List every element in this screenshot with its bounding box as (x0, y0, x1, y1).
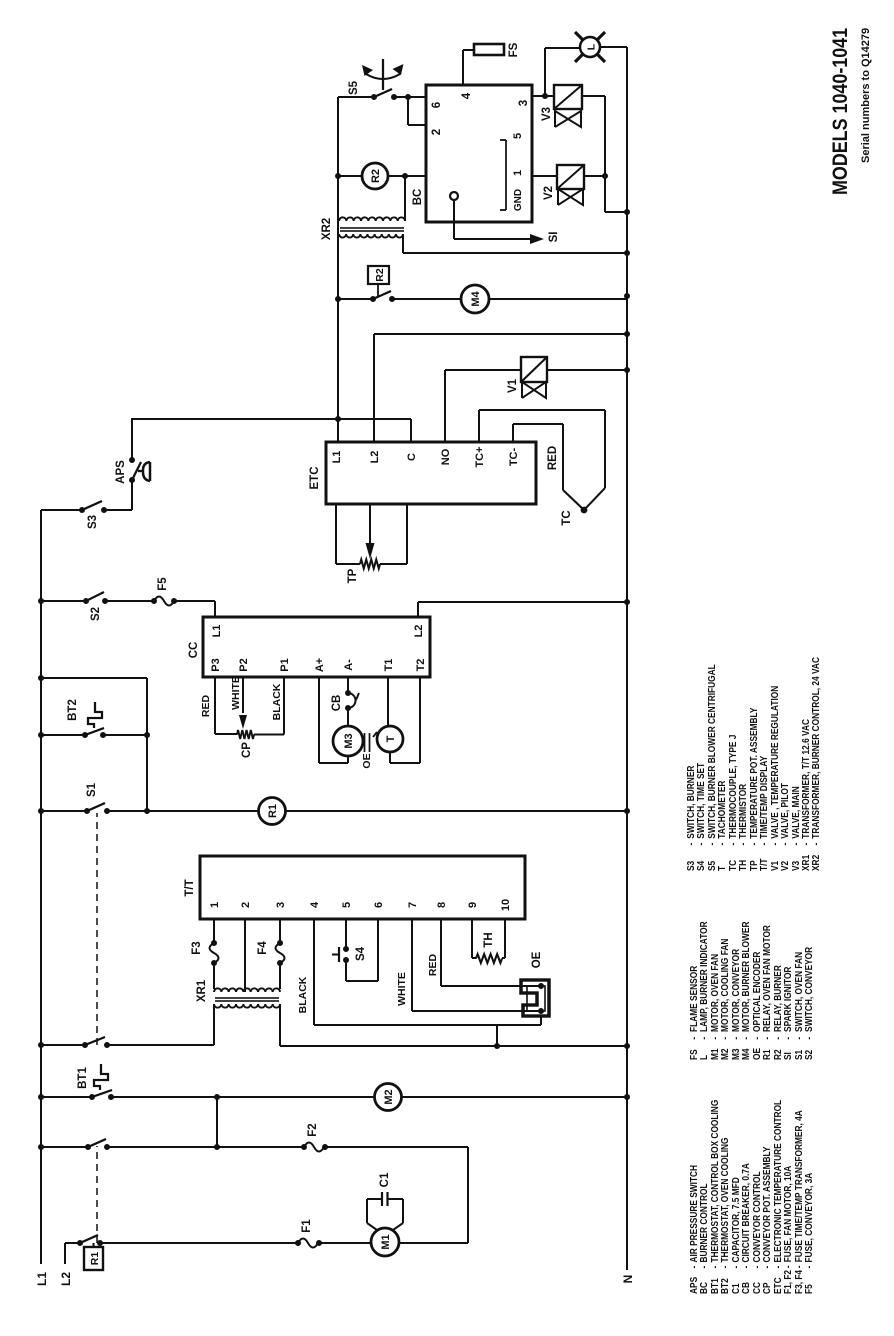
switch APS pressure switch (129, 477, 135, 483)
svg-text:T2: T2 (415, 659, 427, 672)
arrow TP wiper (366, 543, 375, 559)
svg-text:6: 6 (373, 902, 385, 908)
transformer XR2 primary (339, 217, 405, 221)
box BC burner control (426, 85, 532, 222)
wire M2 to N rail (401, 1096, 627, 1098)
valve V2 body (558, 189, 583, 205)
sensor FS (474, 44, 504, 55)
svg-text:TP: TP (347, 568, 359, 583)
wire F2 mid (107, 1146, 304, 1148)
svg-text:L2: L2 (59, 1272, 73, 1286)
symbol S5 rotary knob (366, 74, 400, 79)
node junction rail BT2 (38, 732, 44, 738)
switch S5 (371, 94, 377, 100)
svg-text:5: 5 (341, 902, 353, 908)
switch S1 pole3 (85, 1144, 91, 1150)
box T/T time temp display (200, 856, 525, 919)
arrow SI (530, 234, 544, 244)
node junction rail S1 (38, 808, 44, 814)
svg-text:ETC: ETC (309, 467, 321, 490)
wire ETC NO to V1 (444, 370, 446, 442)
wire S3 branch upper (41, 509, 82, 511)
svg-text:OE: OE (361, 753, 373, 768)
wire TC- loop (512, 424, 514, 442)
wire SI spark output (453, 200, 455, 239)
switch S1 (84, 808, 90, 814)
wire BT1 upper (41, 1096, 92, 1098)
wire ETC L2 to N rail (373, 334, 375, 442)
svg-text:V2: V2 (543, 186, 555, 200)
resistor CP (237, 730, 254, 739)
wire V2 to V-bus (584, 175, 605, 177)
wire BT1 mid (111, 1096, 375, 1098)
wire burner line to APS (131, 480, 133, 510)
wire C1 loop upper (367, 1223, 377, 1230)
svg-text:1: 1 (209, 902, 221, 908)
wire S1 branch lower (285, 810, 627, 812)
node junction common/R2 line (335, 173, 341, 179)
lamp L (580, 37, 600, 57)
svg-text:RED: RED (427, 953, 439, 976)
relay coil R1 (259, 798, 286, 825)
resistor TP (360, 560, 380, 569)
svg-text:CP: CP (241, 742, 253, 758)
wire M1 link (467, 1147, 469, 1243)
fuse F1 (295, 1240, 301, 1246)
relay coil R2 (362, 163, 388, 189)
wire lamp to N rail (600, 46, 627, 48)
wire V bus (604, 96, 606, 212)
svg-text:L1: L1 (35, 1272, 49, 1286)
wire common line ETC L1 to S5 (337, 97, 339, 442)
wire XR2 secondary to N rail (402, 234, 404, 253)
resistor TH (476, 954, 502, 963)
switch S3 (79, 507, 85, 513)
title MODELS 1040-1041 (829, 28, 853, 195)
svg-text:BT1: BT1 (77, 1067, 89, 1089)
wire tie Y217 (216, 1097, 218, 1147)
svg-text:NO: NO (440, 448, 452, 465)
node junction BT1 tie (214, 1094, 220, 1100)
svg-text:5: 5 (512, 133, 524, 139)
svg-text:XR2: XR2 (321, 218, 333, 240)
wire BC gnd to V2 (532, 175, 557, 177)
wire CP to P1 (254, 734, 284, 736)
wire S2 branch upper (41, 600, 86, 602)
svg-text:S3: S3 (87, 515, 99, 529)
node junction XR2 primary tap (402, 173, 408, 179)
wire BC pin3 to V3 (532, 95, 554, 97)
svg-text:T1: T1 (383, 659, 395, 672)
wire black link (496, 1025, 498, 1046)
svg-text:L: L (586, 43, 598, 50)
svg-text:6: 6 (431, 102, 443, 108)
wire F4 to XR1 (279, 963, 281, 989)
wire corner down to ETC C pin (131, 418, 411, 420)
wire T/T pin1 (213, 919, 215, 943)
svg-text:FS: FS (508, 42, 520, 57)
svg-text:R1: R1 (267, 804, 279, 818)
node junction rail F2 (38, 1144, 44, 1150)
node BC spark terminal (450, 192, 458, 200)
svg-text:M4: M4 (470, 290, 482, 306)
wire T/T pin4 black (313, 919, 315, 1025)
wire M4 line lower (489, 298, 627, 300)
wire T/T pin7 white (411, 919, 413, 1011)
node OE white terminal (538, 1008, 544, 1014)
svg-text:2: 2 (240, 902, 252, 908)
wire F3 to XR1 (213, 963, 215, 989)
switch R2 contact (370, 296, 376, 302)
svg-text:L1: L1 (211, 625, 223, 638)
svg-text:BLACK: BLACK (271, 683, 283, 720)
wire BT2 lower (103, 734, 147, 736)
wire S5 line lower (394, 96, 426, 98)
valve V3 body (555, 111, 581, 127)
svg-text:C: C (406, 453, 418, 461)
wire M1 lower (399, 1242, 468, 1244)
fuse F2 (301, 1144, 307, 1150)
motor M1 (371, 1228, 399, 1256)
motor M3 (333, 726, 363, 756)
svg-text:F1: F1 (301, 1219, 313, 1233)
svg-text:S1: S1 (86, 782, 98, 797)
svg-text:9: 9 (467, 902, 479, 908)
wire CB to M3 (347, 708, 349, 726)
svg-text:N: N (621, 1275, 635, 1284)
svg-text:S4: S4 (355, 946, 367, 961)
svg-text:F5: F5 (157, 577, 169, 591)
svg-text:P3: P3 (210, 658, 222, 671)
svg-text:BLACK: BLACK (297, 976, 309, 1013)
switch S2 (83, 598, 89, 604)
node OE red terminal (538, 983, 544, 989)
wire R2 coil line lower (388, 175, 426, 177)
wire T/T pin5 (345, 919, 347, 949)
wire TC+ loop (478, 410, 480, 442)
valve V1 body (522, 382, 546, 398)
wire F1 lower (319, 1242, 371, 1244)
node junction rail plain branch (38, 675, 44, 681)
svg-text:XR1: XR1 (196, 979, 208, 1002)
wire S3 branch lower (104, 509, 132, 511)
svg-text:F3: F3 (191, 941, 203, 954)
svg-text:R1: R1 (89, 1252, 101, 1266)
wire T/T pin2 tap (244, 919, 246, 992)
svg-text:V1: V1 (507, 378, 519, 393)
wire L1 top rail (40, 510, 42, 1264)
transformer XR1 secondary (214, 1004, 280, 1008)
svg-text:L2: L2 (413, 625, 425, 638)
wire mechanical coupling dashed S1 side (96, 813, 98, 1045)
legend column 1 (690, 1100, 815, 1294)
svg-text:L2: L2 (369, 451, 381, 464)
wire R2 coil line upper (338, 175, 362, 177)
wire M4 line middle (392, 298, 461, 300)
transformer XR2 core (340, 227, 404, 229)
wire L2 lead (64, 1243, 66, 1264)
svg-text:WHITE: WHITE (230, 676, 242, 710)
node junction lamp tap (542, 93, 548, 99)
coupler OE shaft (364, 733, 366, 752)
svg-text:C1: C1 (379, 1172, 391, 1187)
svg-text:BT2: BT2 (67, 699, 79, 721)
wire tie Y147 (146, 678, 148, 811)
fuse F4 (277, 940, 283, 946)
symbol APS diaphragm (138, 462, 150, 481)
node junction F2 tie (214, 1144, 220, 1150)
node junction common/APS line (335, 416, 341, 422)
svg-text:T: T (385, 735, 397, 742)
transformer XR1 core (215, 997, 279, 999)
node junction pin6/pin2 tie (405, 94, 411, 100)
wire CC L2 to N rail (417, 602, 419, 617)
svg-text:7: 7 (407, 902, 419, 908)
wire L2 to switch (65, 1242, 80, 1244)
wire XR2 primary bottom tap (404, 176, 406, 221)
wire V3 to V-bus (582, 95, 605, 97)
wire CC P3 red (214, 677, 216, 734)
relay actuator R1 box (84, 1247, 103, 1270)
wire main switch branch (107, 1044, 214, 1046)
breaker CB (345, 690, 351, 696)
node N rail junctions (624, 209, 630, 215)
subtitle serial numbers (860, 28, 872, 163)
wire secondary return (280, 1045, 627, 1047)
wire V1 to N rail (547, 369, 627, 371)
arrow CP wiper (239, 715, 247, 729)
svg-text:WHITE: WHITE (396, 972, 408, 1006)
svg-text:8: 8 (436, 902, 448, 908)
wire CC T1 to T (387, 677, 389, 726)
wire TP upper (335, 504, 337, 564)
switch S1 pole4 (77, 1240, 83, 1246)
wire BC pin2 tie (407, 97, 409, 125)
svg-text:P1: P1 (279, 658, 291, 671)
transformer XR2 secondary (339, 234, 403, 238)
wire T/T pin3 (279, 919, 281, 943)
legend column 2 (690, 921, 815, 1060)
box CC conveyor control (203, 617, 430, 677)
wire main switch branch upper (41, 1044, 85, 1046)
svg-text:4: 4 (461, 92, 473, 99)
svg-text:SI: SI (548, 232, 560, 243)
wire C1 loop lower (388, 1198, 404, 1200)
wire F2 lower (325, 1146, 468, 1148)
svg-text:T/T: T/T (184, 879, 196, 896)
node junction secondary/black (494, 1043, 500, 1049)
legend column 3 (687, 657, 823, 871)
fuse F3 (211, 940, 217, 946)
box ETC electronic temperature control (326, 442, 536, 504)
wire TP lower (380, 563, 407, 565)
wire T/T pin9 (471, 919, 473, 958)
wire mechanical coupling dashed F1 side (96, 1146, 98, 1243)
svg-text:TC: TC (561, 510, 573, 525)
wire F5 to CC (174, 600, 215, 602)
wire S1 branch upper (41, 810, 87, 812)
wire plain branch (41, 677, 147, 679)
wire M4 line upper (338, 298, 373, 300)
node junction rail S2 (38, 598, 44, 604)
svg-text:3: 3 (275, 902, 287, 908)
symbol BC gnd bracket (505, 140, 507, 210)
svg-text:CB: CB (331, 695, 343, 712)
svg-text:10: 10 (500, 899, 512, 911)
svg-text:TC-: TC- (508, 448, 520, 467)
wire T to CC T2 (389, 752, 391, 763)
wire CC P2 wiper (242, 677, 244, 713)
svg-text:R2: R2 (370, 169, 382, 183)
wire T/T pin10 (504, 919, 506, 958)
svg-text:S5: S5 (348, 80, 360, 95)
svg-text:A-: A- (343, 659, 355, 671)
wire BC pin4 to FS (462, 50, 464, 85)
thermostat BT1 (89, 1094, 95, 1100)
svg-text:F2: F2 (307, 1123, 319, 1136)
node junction common/M4 line (335, 296, 341, 302)
transformer XR1 primary (214, 988, 280, 992)
svg-text:M1: M1 (380, 1234, 392, 1249)
svg-text:4: 4 (309, 901, 321, 908)
encoder OE outline (521, 980, 549, 1016)
fuse F5 (151, 598, 157, 604)
svg-text:TC+: TC+ (474, 446, 486, 467)
svg-text:OE: OE (531, 951, 543, 968)
svg-text:RED: RED (547, 446, 559, 470)
svg-text:F4: F4 (257, 941, 269, 955)
svg-text:RED: RED (200, 694, 212, 717)
capacitor C1 (381, 1192, 383, 1206)
svg-text:L1: L1 (331, 451, 343, 464)
switch S1 pole2 (82, 1042, 88, 1048)
svg-text:M3: M3 (343, 733, 355, 748)
svg-text:P2: P2 (238, 658, 250, 671)
svg-text:V3: V3 (541, 107, 553, 121)
relay actuator R2 box (368, 266, 389, 284)
motor M2 (375, 1084, 402, 1111)
svg-text:BC: BC (412, 189, 424, 206)
wire T/T pin8 red (440, 919, 442, 986)
svg-text:GND: GND (513, 189, 524, 211)
svg-text:APS: APS (115, 460, 127, 484)
wire S4 loop (345, 960, 347, 981)
wire S1 branch mid (107, 810, 259, 812)
valve V3 solenoid (554, 85, 582, 109)
tachometer T (377, 726, 403, 752)
wire XR1 secondary top (213, 1004, 215, 1045)
wire XR1 secondary bottom (279, 1004, 281, 1046)
node junction rail pole2 (38, 1042, 44, 1048)
wire TP wiper (369, 504, 371, 547)
thermostat BT2 (82, 732, 88, 738)
svg-text:A+: A+ (314, 658, 326, 672)
svg-text:1: 1 (512, 170, 524, 176)
svg-text:3: 3 (518, 100, 530, 106)
node junction S1 tie (144, 808, 150, 814)
svg-text:M2: M2 (383, 1089, 395, 1104)
svg-text:CC: CC (188, 642, 200, 659)
valve V1 solenoid (521, 357, 547, 382)
svg-text:S2: S2 (90, 607, 102, 621)
wire CC A- to CB (347, 677, 349, 693)
svg-text:2: 2 (431, 129, 443, 135)
wire BT2 upper (41, 734, 85, 736)
node TC junction (581, 507, 588, 514)
svg-text:R2: R2 (374, 268, 386, 282)
node junction rail BT1 (38, 1094, 44, 1100)
wire F1 upper (100, 1242, 298, 1244)
node junction BT2 tie (144, 732, 150, 738)
wire APS to corner (131, 419, 133, 460)
wire lamp feed (544, 48, 546, 96)
wire N rail (626, 47, 628, 1270)
wire F2 upper (41, 1146, 88, 1148)
wire S2 to F5 (105, 600, 154, 602)
svg-text:TH: TH (483, 932, 495, 947)
wire CC A+ to M3 (318, 677, 320, 763)
node junction V2 bus (602, 173, 608, 179)
motor M4 (461, 285, 489, 313)
wire S5 line upper (338, 96, 374, 98)
switch S4 pushbutton (343, 946, 349, 952)
valve V2 solenoid (557, 165, 584, 189)
encoder OE inner (527, 986, 545, 1011)
